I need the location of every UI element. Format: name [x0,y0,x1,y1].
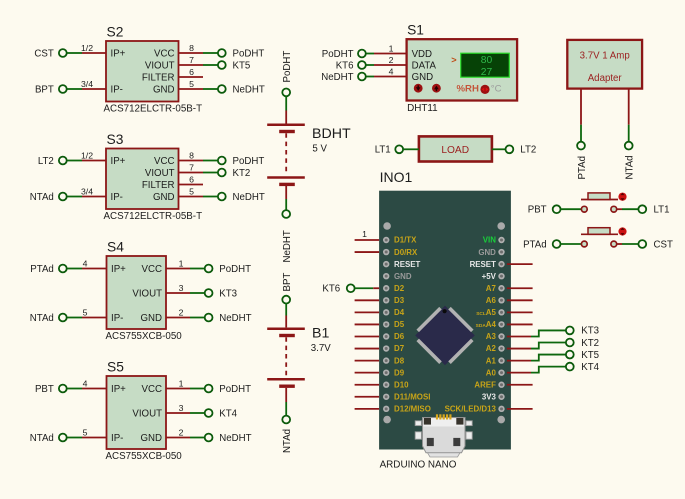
S1 pin 4 wire to terminal NeDHT [365,76,406,78]
svg-text:GND: GND [140,433,162,444]
svg-text:S2: S2 [107,25,124,40]
S2 pin 6 wire (FILTER stub) [179,76,204,78]
pin number 1/2 of S2 [81,43,93,53]
svg-text:1/2: 1/2 [81,43,93,53]
wire INO1 A6 stub (right) [507,299,533,301]
svg-text:ACS755XCB-050: ACS755XCB-050 [106,331,183,342]
svg-text:GND: GND [153,192,175,203]
wire PBT to button contact [560,208,581,210]
S1 pin 1 wire to terminal PoDHT [365,53,406,55]
pin number 2 of S5 [179,427,184,437]
wire KT6 to INO1 D2 [355,287,380,289]
pin number 7 of S2 [189,55,194,65]
svg-text:VIOUT: VIOUT [145,168,175,179]
svg-text:A6: A6 [486,296,497,305]
terminal LT2 (node LT2) [506,145,537,156]
svg-text:8: 8 [189,150,194,160]
pin number 1 of S5 [179,378,184,388]
svg-text:D0/RX: D0/RX [394,248,418,257]
svg-text:3V3: 3V3 [482,392,497,401]
sensor S5 ACS755XCB-050 body [106,360,183,463]
push button contact left [581,206,587,212]
wire INO1 D4 stub [355,311,380,313]
pin number 5 of S2 [189,79,194,89]
terminal KT4 (node KT4) [566,362,600,373]
svg-text:B1: B1 [312,326,329,342]
wire battery B1 to NTAd terminal [285,388,287,416]
sensor S4 ACS755XCB-050 body [106,240,183,343]
microcontroller INO1 Arduino Nano board [379,169,511,470]
svg-text:PTAd: PTAd [30,264,54,275]
wire INO1 D8 stub [355,360,380,362]
wire BPT terminal to battery B1 [285,303,287,327]
svg-text:FILTER: FILTER [142,180,175,191]
svg-text:VIOUT: VIOUT [132,408,162,419]
push button contact right [611,206,617,212]
svg-text:DHT11: DHT11 [407,103,438,114]
svg-text:PoDHT: PoDHT [219,384,251,395]
wire LOAD to LT2 [492,148,506,150]
wire LT1 to LOAD [403,148,419,150]
svg-text:°C: °C [491,84,502,95]
node NTAd vertical label [282,429,293,453]
S4 pin 1 wire to terminal PoDHT [166,268,204,270]
svg-text:IP-: IP- [111,84,123,95]
terminal BPT (node BPT) [35,84,67,95]
wire INO1 D12/MISO stub [355,408,380,410]
terminal KT5 (node KT5) [566,350,599,361]
svg-text:PoDHT: PoDHT [322,49,354,60]
terminal NTAd (battery B1 -) [282,416,290,424]
svg-text:1/2: 1/2 [81,150,93,160]
wire adapter + to PTAd terminal [580,89,582,142]
wire battery BDHT to NeDHT terminal [285,186,287,211]
svg-text:A0: A0 [486,368,497,377]
svg-text:KT4: KT4 [581,362,599,373]
node BPT vertical label [282,273,293,292]
pin number 1/2 of S3 [81,150,93,160]
svg-text:KT6: KT6 [336,60,354,71]
svg-text:ARDUINO NANO: ARDUINO NANO [380,459,457,470]
terminal PoDHT (node PoDHT) [322,49,366,60]
terminal PTAd (node PTAd) [523,239,560,250]
S3 pin 6 wire (FILTER stub) [179,184,204,186]
power adapter 3.7V 1 Amp [567,40,642,89]
svg-text:ACS712ELCTR-05B-T: ACS712ELCTR-05B-T [104,104,203,115]
svg-text:VIOUT: VIOUT [132,288,162,299]
svg-text:IP-: IP- [111,433,123,444]
pin number 7 of S3 [189,162,194,172]
svg-text:5: 5 [189,79,194,89]
pin number 2 of S4 [179,307,184,317]
svg-text:NeDHT: NeDHT [233,192,265,203]
sensor S2 ACS712ELCTR-05B-T body [104,25,203,115]
INO1 left pin header and labels [383,236,431,414]
pin number 1 of INO1 [362,229,367,239]
S5 pin 3 wire to terminal KT4 [166,412,204,414]
wire INO1 SCK/LED/D13 stub (right) [507,408,533,410]
terminal PBT (node PBT) [528,205,561,216]
terminal LT1 (node LT1) [638,205,669,216]
svg-text:PoDHT: PoDHT [219,264,251,275]
terminal CST (node CST) [34,48,66,59]
svg-text:NTAd: NTAd [282,429,293,453]
svg-text:PBT: PBT [528,205,547,216]
svg-text:4: 4 [83,378,88,388]
S3 pin 8 wire to terminal PoDHT [179,160,218,162]
wire INO1 AREF stub (right) [507,384,533,386]
wire adapter - to NTAd terminal [628,89,630,142]
terminal BPT (battery B1 +) [282,296,290,304]
wire INO1 D10 stub [355,384,380,386]
DHT11 LCD readout [461,53,510,78]
pin number 1 of S4 [179,258,184,268]
svg-text:BDHT: BDHT [312,126,351,142]
node PoDHT vertical label [282,51,293,83]
svg-text:2: 2 [389,55,394,65]
wire INO1 A7 stub (right) [507,287,533,289]
svg-text:SCK/LED/D13: SCK/LED/D13 [445,405,497,414]
svg-text:1: 1 [389,43,394,53]
svg-text:LT2: LT2 [520,145,536,156]
svg-text:BPT: BPT [282,273,293,292]
svg-text:LOAD: LOAD [441,145,469,156]
svg-text:FILTER: FILTER [142,72,175,83]
svg-text:A3: A3 [486,332,497,341]
svg-text:5: 5 [189,186,194,196]
wire INO1 A4 stub (right) [507,323,533,325]
svg-text:ACS712ELCTR-05B-T: ACS712ELCTR-05B-T [104,211,203,222]
INO1 micro-USB connector [415,414,472,457]
INO1 right pin header and labels [445,236,505,414]
svg-text:IP+: IP+ [111,48,126,59]
svg-text:LT1: LT1 [654,205,670,216]
svg-text:PTAd: PTAd [577,156,588,180]
svg-text:A7: A7 [486,284,497,293]
svg-text:2: 2 [179,307,184,317]
pin number 4 of S5 [83,378,88,388]
wire button contact to LT1 [617,208,639,210]
svg-text:A1: A1 [486,356,497,365]
svg-text:KT2: KT2 [581,338,599,349]
svg-text:VIOUT: VIOUT [145,60,175,71]
S5 pin 4 (IP+) wire to terminal PBT [66,388,106,390]
terminal PBT (node PBT) [35,384,67,395]
svg-text:D9: D9 [394,368,405,377]
terminal PTAd (node PTAd) [30,264,66,275]
svg-text:7: 7 [189,162,194,172]
svg-text:NeDHT: NeDHT [321,72,353,83]
pin number 6 of S2 [189,67,194,77]
svg-text:LT2: LT2 [38,156,54,167]
S2 pin 3/4 (IP-) wire to terminal BPT [66,88,106,90]
terminal KT6 (node KT6) [322,284,354,295]
svg-text:VCC: VCC [154,48,174,59]
pin number 3/4 of S3 [81,186,93,196]
terminal NeDHT (node NeDHT) [205,433,252,444]
svg-text:6: 6 [189,67,194,77]
svg-text:VCC: VCC [142,264,162,275]
node NeDHT vertical label [282,230,293,262]
svg-text:LT1: LT1 [375,145,391,156]
svg-text:NeDHT: NeDHT [233,84,265,95]
S3 pin 3/4 (IP-) wire to terminal NTAd [66,196,106,198]
S3 pin 1/2 (IP+) wire to terminal LT2 [66,160,106,162]
svg-text:KT5: KT5 [233,60,251,71]
svg-text:PoDHT: PoDHT [233,156,265,167]
svg-text:VCC: VCC [142,384,162,395]
svg-text:S4: S4 [107,240,124,255]
svg-text:PoDHT: PoDHT [233,48,265,59]
svg-text:4: 4 [83,258,88,268]
svg-text:GND: GND [140,313,162,324]
S4 pin 3 wire to terminal KT3 [166,292,204,294]
svg-text:+5V: +5V [482,272,497,281]
svg-text:RESET: RESET [470,260,496,269]
terminal PoDHT (battery BDHT +) [282,89,290,97]
svg-text:2: 2 [179,427,184,437]
S5 pin 2 wire to terminal NeDHT [166,437,204,439]
svg-text:%RH: %RH [457,84,479,95]
svg-text:BPT: BPT [35,84,54,95]
wire INO1 D1/TX stub [355,239,380,241]
svg-text:RESET: RESET [394,260,420,269]
svg-text:1: 1 [179,258,184,268]
svg-text:NTAd: NTAd [30,313,54,324]
svg-text:IP-: IP- [111,313,123,324]
svg-text:3.7V 1 Amp: 3.7V 1 Amp [580,51,630,62]
svg-text:VDD: VDD [412,49,432,60]
terminal NTAd (node NTAd) [30,192,67,203]
terminal PoDHT (node PoDHT) [218,48,264,59]
terminal KT2 (node KT2) [566,338,599,349]
terminal LT1 (node LT1) [375,145,403,156]
svg-text:PTAd: PTAd [523,239,547,250]
push button contact right [611,241,617,247]
wire INO1 A1 to terminal KT5 [507,355,566,361]
svg-text:GND: GND [478,248,496,257]
terminal NeDHT (node NeDHT) [218,84,265,95]
wire INO1 D11/MOSI stub [355,396,380,398]
terminal KT2 (node KT2) [218,168,250,179]
terminal PoDHT (node PoDHT) [205,384,251,395]
svg-text:S5: S5 [107,360,124,375]
svg-text:CST: CST [34,48,53,59]
pin number 5 of S3 [189,186,194,196]
wire INO1 D5 stub [355,323,380,325]
svg-text:3.7V: 3.7V [311,343,331,354]
wire INO1 D9 stub [355,372,380,374]
pin number 5 of S5 [83,427,88,437]
battery B1 [267,326,331,387]
terminal PoDHT (node PoDHT) [218,156,264,167]
svg-text:CST: CST [654,239,673,250]
svg-text:Adapter: Adapter [588,73,623,84]
pin number 3 of S5 [179,403,184,413]
svg-text:ACS755XCB-050: ACS755XCB-050 [106,451,183,462]
sensor S3 ACS712ELCTR-05B-T body [104,132,203,222]
svg-text:INO1: INO1 [380,169,413,185]
pin number 8 of S2 [189,43,194,53]
sensor S1 DHT11 body [407,23,517,115]
S5 pin 5 (IP-) wire to terminal NTAd [66,437,106,439]
svg-text:IP+: IP+ [111,384,126,395]
svg-text:5: 5 [83,427,88,437]
svg-text:1: 1 [179,378,184,388]
svg-text:D5: D5 [394,320,405,329]
pin number 3/4 of S2 [81,79,93,89]
svg-text:KT3: KT3 [581,326,599,337]
wire PoDHT terminal to battery BDHT [285,96,287,124]
S1 pin 2 wire to terminal KT6 [365,64,406,66]
terminal NeDHT (node NeDHT) [205,313,252,324]
svg-text:NTAd: NTAd [625,155,636,179]
svg-text:1: 1 [362,229,367,239]
terminal KT3 (node KT3) [566,326,599,337]
wire INO1 A3 to terminal KT3 [507,330,566,336]
svg-text:D3: D3 [394,296,405,305]
svg-text:KT6: KT6 [322,284,340,295]
svg-text:D7: D7 [394,344,405,353]
label °C [491,84,502,95]
terminal KT3 (node KT3) [205,288,237,299]
terminal KT4 (node KT4) [205,408,238,419]
push button contact left [581,241,587,247]
S2 pin 7 wire to terminal KT5 [179,64,218,66]
svg-text:D10: D10 [394,380,409,389]
svg-text:5 V: 5 V [312,143,327,154]
terminal LT2 (node LT2) [38,156,67,167]
svg-text:S1: S1 [407,23,424,38]
svg-text:>: > [451,55,456,65]
S5 pin 1 wire to terminal PoDHT [166,388,204,390]
push button PTAd-CST animate icon [618,227,626,235]
pin number 5 of S4 [83,307,88,317]
svg-text:D4: D4 [394,308,405,317]
DHT11 down button [414,84,423,93]
wire INO1 RESET stub (right) [507,263,533,265]
svg-text:7: 7 [189,55,194,65]
svg-text:3: 3 [179,403,184,413]
svg-text:S3: S3 [107,132,124,147]
pin number 2 of S1 [389,55,394,65]
svg-text:6: 6 [189,174,194,184]
svg-text:KT3: KT3 [219,288,237,299]
S2 pin 8 wire to terminal PoDHT [179,52,218,54]
svg-text:NeDHT: NeDHT [219,313,251,324]
terminal NTAd (node NTAd) [30,313,67,324]
DHT11 toggle button [480,85,489,94]
svg-text:VIN: VIN [483,236,496,245]
terminal NeDHT (battery BDHT -) [282,210,290,218]
S4 pin 5 (IP-) wire to terminal NTAd [66,317,106,319]
node PTAd vertical label [577,156,588,180]
S4 pin 2 wire to terminal NeDHT [166,317,204,319]
S3 pin 7 wire to terminal KT2 [179,172,218,174]
svg-text:IP+: IP+ [111,156,126,167]
terminal NTAd (node NTAd) [30,433,67,444]
svg-text:AREF: AREF [474,380,496,389]
push button PTAd-CST actuator [581,228,618,235]
svg-text:KT2: KT2 [233,168,251,179]
svg-text:NeDHT: NeDHT [219,433,251,444]
label %RH [457,84,479,95]
terminal NeDHT (node NeDHT) [321,72,366,83]
push button PBT-LT1 actuator [581,193,618,200]
wire INO1 A5 stub (right) [507,311,533,313]
svg-text:D11/MOSI: D11/MOSI [394,392,430,401]
svg-text:NeDHT: NeDHT [282,230,293,262]
svg-text:4: 4 [389,66,394,76]
svg-text:D12/MISO: D12/MISO [394,405,431,414]
S4 pin 4 (IP+) wire to terminal PTAd [66,268,106,270]
terminal CST (node CST) [638,239,673,250]
svg-text:27: 27 [481,67,493,78]
svg-text:GND: GND [153,84,175,95]
wire INO1 D7 stub [355,348,380,350]
svg-text:8: 8 [189,43,194,53]
load LOAD block [419,136,492,161]
wire INO1 D6 stub [355,335,380,337]
svg-text:NTAd: NTAd [30,433,54,444]
battery BDHT [267,125,351,185]
wire INO1 A0 to terminal KT4 [507,367,566,373]
svg-text:IP-: IP- [111,192,123,203]
terminal PoDHT (node PoDHT) [205,264,251,275]
svg-text:GND: GND [412,72,434,83]
svg-text:3: 3 [179,283,184,293]
wire INO1 A2 to terminal KT2 [507,342,566,348]
svg-text:NTAd: NTAd [30,192,54,203]
wire PTAd to button contact [560,243,581,245]
svg-text:3/4: 3/4 [81,79,93,89]
wire button contact to CST [617,243,639,245]
svg-text:KT5: KT5 [581,350,599,361]
node NTAd vertical label [625,155,636,179]
pin number 1 of S1 [389,43,394,53]
terminal NTAd (adapter -) [625,142,633,150]
svg-text:D6: D6 [394,332,405,341]
pin number 4 of S4 [83,258,88,268]
S3 pin 5 wire to terminal NeDHT [179,196,218,198]
push button PBT-LT1 animate icon [618,193,626,201]
INO1 MCU chip [415,306,475,366]
terminal PTAd (adapter +) [577,142,585,150]
pin number 4 of S1 [389,66,394,76]
wire INO1 D0/RX stub [355,251,380,253]
terminal KT6 (node KT6) [336,60,366,71]
terminal NeDHT (node NeDHT) [218,192,265,203]
svg-text:80: 80 [481,55,493,66]
svg-text:VCC: VCC [154,156,174,167]
S2 pin 5 wire to terminal NeDHT [179,88,218,90]
svg-text:DATA: DATA [412,60,437,71]
svg-text:3/4: 3/4 [81,186,93,196]
S2 pin 1/2 (IP+) wire to terminal CST [66,52,106,54]
DHT11 up button [432,84,441,93]
svg-text:5: 5 [83,307,88,317]
pin number 6 of S3 [189,174,194,184]
pin number 3 of S4 [179,283,184,293]
INO1 mounting holes [383,222,505,423]
wire INO1 D3 stub [355,299,380,301]
value pointer > marker [451,55,456,65]
svg-text:KT4: KT4 [219,408,237,419]
svg-text:D1/TX: D1/TX [394,236,417,245]
svg-text:D8: D8 [394,356,405,365]
svg-text:A2: A2 [486,344,497,353]
svg-text:PBT: PBT [35,384,54,395]
